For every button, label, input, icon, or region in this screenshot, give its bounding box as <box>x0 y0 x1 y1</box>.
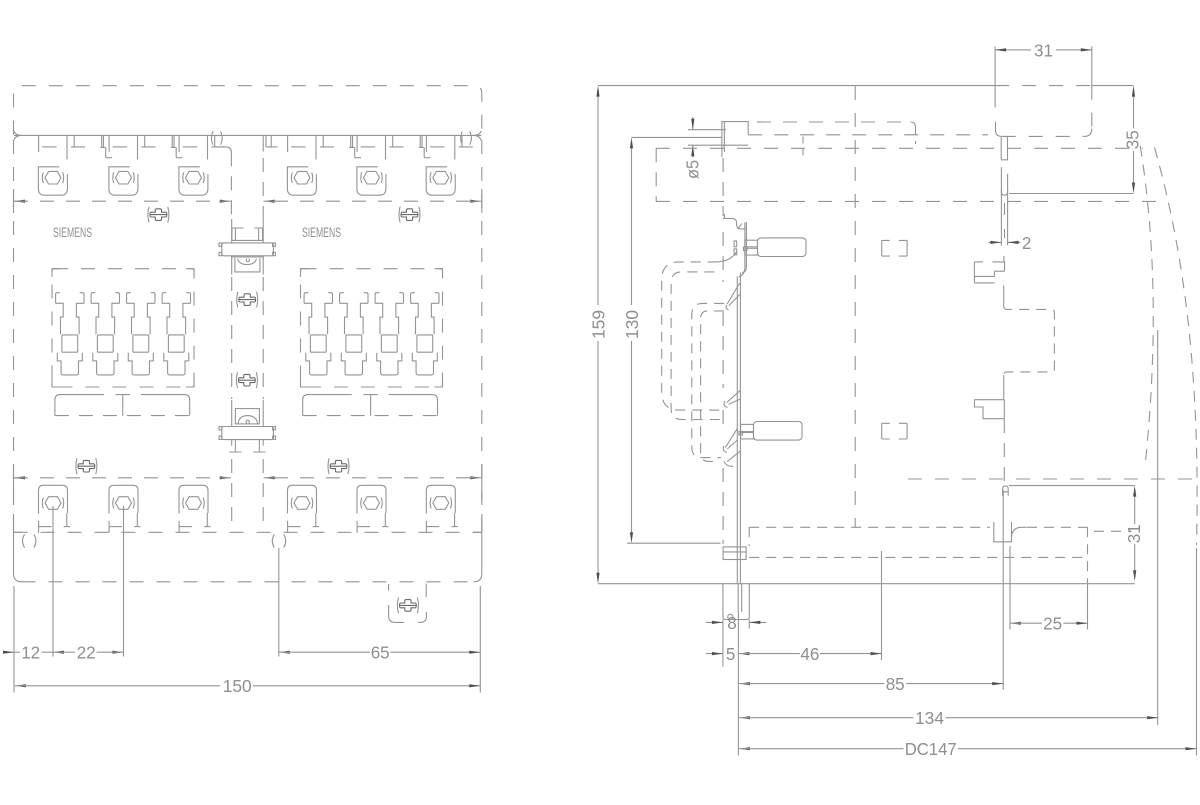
svg-text:130: 130 <box>622 310 642 339</box>
svg-text:25: 25 <box>1043 614 1062 634</box>
svg-text:159: 159 <box>588 310 608 339</box>
svg-text:12: 12 <box>21 643 40 663</box>
svg-text:SIEMENS: SIEMENS <box>302 224 341 240</box>
svg-text:31: 31 <box>1034 40 1053 60</box>
svg-text:22: 22 <box>77 643 96 663</box>
svg-text:85: 85 <box>886 674 905 694</box>
svg-text:5: 5 <box>726 644 736 664</box>
svg-text:35: 35 <box>1123 130 1143 149</box>
svg-text:2: 2 <box>1022 233 1032 253</box>
svg-text:46: 46 <box>800 644 819 664</box>
svg-text:ø5: ø5 <box>682 160 702 179</box>
svg-text:150: 150 <box>223 676 252 696</box>
svg-text:DC147: DC147 <box>905 739 957 759</box>
svg-text:65: 65 <box>371 643 390 663</box>
svg-text:8: 8 <box>727 613 737 633</box>
svg-text:SIEMENS: SIEMENS <box>53 224 92 240</box>
svg-text:134: 134 <box>915 708 944 728</box>
svg-text:31: 31 <box>1124 524 1144 543</box>
